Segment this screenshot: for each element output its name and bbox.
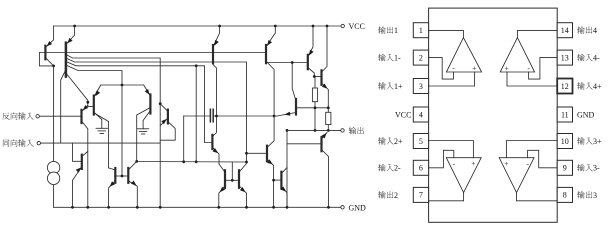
- svg-text:6: 6: [419, 164, 423, 173]
- node non-inverting input (同向输入): [3, 140, 9, 147]
- svg-text:2: 2: [394, 191, 398, 200]
- transistor Q20 (NPN sink driver): [280, 172, 282, 189]
- node inverting input (反向输入): [2, 113, 9, 120]
- junction cap/Q10: [215, 115, 218, 118]
- svg-text:7: 7: [419, 191, 423, 200]
- transistor Q5 (left low): [81, 155, 83, 169]
- label 输入3+: [577, 137, 584, 144]
- wire Q2 collector d (tail): [66, 65, 122, 176]
- svg-text:+: +: [504, 63, 508, 72]
- svg-text:8: 8: [563, 191, 567, 200]
- label 输入1+: [378, 82, 385, 89]
- transistor Q4 (PNP): [93, 96, 95, 115]
- pin 11 box: [557, 107, 572, 122]
- svg-text:12: 12: [561, 82, 569, 91]
- op-amp A4: [500, 38, 534, 72]
- svg-text:9: 9: [563, 164, 567, 173]
- label 输出3: [577, 191, 584, 198]
- junction b1: [245, 152, 248, 155]
- label 输入2-: [378, 164, 385, 171]
- wire pin14 to A4 out: [517, 30, 557, 37]
- op-amp A1: [446, 38, 481, 72]
- svg-text:10: 10: [561, 137, 569, 146]
- label 输入4+: [577, 82, 584, 89]
- wire Q2 collector e: [61, 70, 66, 144]
- svg-text:14: 14: [561, 26, 569, 35]
- svg-text:2-: 2-: [394, 164, 401, 173]
- transistor Q17 (NPN darlington top): [320, 70, 322, 84]
- wire pin10 to A3 plus: [506, 141, 557, 158]
- transistor Q1 (PNP, diode-connected): [44, 46, 46, 60]
- junction c1 / drop to first-stage-out: [195, 64, 198, 67]
- label 输入1-: [378, 54, 385, 61]
- pin 7 box: [413, 187, 428, 202]
- pin 3 box: [413, 79, 428, 94]
- wire Q2 collector c: [66, 62, 213, 143]
- resistor R1: [314, 77, 316, 89]
- transistor Q9 (mirror right): [127, 168, 129, 183]
- svg-text:VCC: VCC: [349, 22, 365, 31]
- wire pin13 to A4 minus: [529, 58, 558, 80]
- svg-text:GND: GND: [349, 203, 367, 212]
- wire pin1 to A1 out: [429, 30, 464, 37]
- pin 1 box: [413, 23, 428, 38]
- wire pin7 to A2 out: [429, 193, 464, 201]
- svg-text:1: 1: [394, 26, 398, 35]
- label 输出2: [378, 191, 385, 198]
- transistor Q10 (NPN second stage): [211, 135, 213, 149]
- transistor Q14 (PNP source): [212, 45, 214, 63]
- transistor Q7 (PNP): [167, 110, 169, 124]
- wire pin2 to A1 minus: [429, 58, 454, 80]
- wire output-sink column: [286, 130, 288, 207]
- svg-text:3: 3: [419, 82, 423, 91]
- pin 13 box: [557, 50, 572, 65]
- svg-text:2+: 2+: [394, 137, 403, 146]
- svg-text:4: 4: [419, 110, 423, 119]
- wire emitter arch: [101, 84, 144, 86]
- pin 5 box: [413, 134, 428, 149]
- svg-text:4-: 4-: [593, 54, 600, 63]
- wire Q1 base loop: [39, 53, 53, 66]
- pin 9 box: [557, 160, 572, 175]
- svg-text:11: 11: [561, 110, 569, 119]
- ground G1: [101, 119, 103, 128]
- transistor Q16 (PNP output top): [307, 55, 309, 69]
- pin 6 box: [413, 160, 428, 175]
- transistor Q8 (mirror left): [114, 168, 116, 183]
- wire Q1 collector to current source: [53, 66, 55, 161]
- wire pin12 to A4 plus: [507, 72, 557, 86]
- svg-text:4+: 4+: [593, 82, 602, 91]
- power rail VCC (top): [54, 25, 341, 27]
- ground G2: [137, 128, 149, 130]
- pin 4 box: [413, 107, 428, 122]
- svg-text:3: 3: [593, 191, 597, 200]
- capacitor C1: [183, 116, 185, 162]
- junction mirror2: [245, 161, 248, 164]
- svg-text:5: 5: [419, 137, 423, 146]
- transistor Q3 (PNP input, inverting): [80, 110, 82, 123]
- svg-text:1: 1: [419, 26, 423, 35]
- current source I1: [47, 161, 59, 173]
- pin 2 box: [413, 50, 428, 65]
- ground rail (bottom): [54, 206, 341, 208]
- label 输入3-: [577, 164, 584, 171]
- wire Q2 collector f: [66, 73, 88, 107]
- wire PNP common base rail: [45, 52, 266, 54]
- svg-text:3+: 3+: [593, 137, 602, 146]
- svg-text:2: 2: [419, 53, 423, 62]
- wire Q2 collector a: [66, 55, 160, 208]
- transistor Q15 (PNP source): [265, 45, 267, 63]
- pin 14 box: [557, 23, 572, 38]
- svg-text:GND: GND: [577, 110, 595, 119]
- transistor Q11 (mirror left): [224, 170, 226, 188]
- transistor Q13 (NPN): [266, 146, 268, 162]
- wire pin9 to A3 minus: [528, 150, 558, 168]
- label 输入4-: [577, 54, 584, 61]
- wire pin5 to A2 plus: [429, 141, 474, 158]
- wire pin8 to A3 out: [517, 193, 558, 201]
- pin 10 box: [557, 134, 572, 149]
- svg-text:3-: 3-: [593, 164, 600, 173]
- svg-text:1-: 1-: [394, 54, 401, 63]
- wire pin6 to A2 minus: [429, 150, 454, 168]
- junction a1: [159, 102, 162, 105]
- wire first-stage out: [137, 161, 247, 164]
- transistor Q2 (multi-collector PNP): [65, 43, 68, 77]
- label 输出4: [577, 26, 584, 33]
- svg-text:1+: 1+: [394, 82, 403, 91]
- svg-text:+: +: [504, 159, 508, 168]
- junction tail: [121, 84, 124, 87]
- label 输出1: [378, 26, 385, 33]
- pin 8 box: [557, 187, 572, 202]
- junction f1: [86, 101, 89, 104]
- wire pin3 to A1 plus: [429, 72, 475, 86]
- transistor Q18 (NPN bias): [295, 99, 297, 115]
- label 输入2+: [378, 137, 385, 144]
- svg-text:4: 4: [593, 26, 597, 35]
- svg-text:+: +: [472, 63, 476, 72]
- transistor Q6 (PNP input, non-inverting): [149, 95, 151, 114]
- transistor Q19 (PNP output sink): [320, 137, 322, 151]
- node output (输出): [287, 129, 341, 131]
- svg-text:13: 13: [561, 53, 569, 62]
- svg-text:+: +: [471, 159, 475, 168]
- pin 12 box: [557, 79, 572, 94]
- op-amp A3: [499, 158, 534, 193]
- wire Q2 collector b: [66, 58, 247, 162]
- terminal VCC: [341, 24, 344, 27]
- resistor R2: [326, 112, 331, 124]
- transistor Q12 (mirror right): [238, 170, 240, 188]
- terminal GND: [341, 206, 344, 209]
- svg-text:VCC: VCC: [395, 110, 411, 119]
- op-amp A2: [446, 158, 481, 193]
- IC body U2: [429, 8, 558, 222]
